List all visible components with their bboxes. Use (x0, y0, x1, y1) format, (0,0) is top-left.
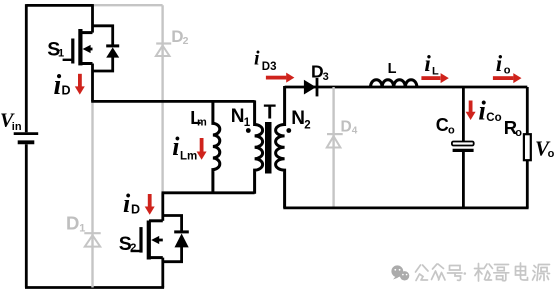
wire grey D4 branch vertical (332, 87, 334, 208)
wire left rail lower (Vin- vertical) (25, 144, 28, 287)
char 源 (533, 265, 550, 281)
diode D1 (grey, inactive) (84, 233, 100, 246)
char dot (464, 272, 467, 275)
watermark wechat icon (391, 265, 409, 280)
transformer T winding N1 (255, 100, 263, 193)
arrow iD (S1) red (75, 74, 85, 95)
arrow iCo red (466, 101, 476, 121)
svg-text:i: i (54, 70, 62, 101)
arrow io red (493, 73, 522, 83)
svg-text:4: 4 (352, 126, 358, 137)
wire S2 source lead down to rail (161, 258, 164, 288)
capacitor Co bottom plate (453, 149, 474, 152)
svg-text:i: i (478, 95, 486, 125)
svg-text:2: 2 (304, 119, 310, 131)
svg-text:in: in (12, 121, 22, 133)
svg-text:1: 1 (58, 48, 64, 60)
arrow iD (S2) red (145, 194, 155, 215)
wire top rail black Vin+ to S1 drain (26, 4, 92, 7)
capacitor Co lower stem (462, 152, 465, 208)
svg-text:o: o (515, 127, 522, 139)
wire output right vertical lower (526, 160, 529, 208)
transistor S1 gate bar (71, 39, 74, 64)
transistor Q S2: drain lead (161, 193, 164, 221)
watermark text 公众号·松哥电源 (simplified stroke art) (416, 263, 550, 281)
svg-text:Lm: Lm (180, 150, 197, 162)
transformer T polarity dot N2 (286, 128, 291, 133)
diode S2 body cathode bar (174, 230, 189, 233)
svg-text:D: D (341, 119, 352, 136)
arrow iLm red (197, 138, 207, 160)
svg-text:1: 1 (244, 117, 251, 129)
wire output right vertical upper (526, 87, 529, 135)
wire grey D2 branch vertical (161, 5, 163, 193)
svg-text:C: C (436, 115, 449, 135)
inductor Lm winding (213, 100, 220, 193)
transformer T winding N2 (276, 86, 285, 208)
char 公 (416, 265, 429, 281)
wire left rail upper (Vin+ vertical) (25, 4, 28, 132)
svg-text:i: i (424, 51, 431, 76)
battery Vin short plate (18, 140, 35, 144)
transistor S2 source arrow (159, 239, 163, 242)
char 号 (448, 266, 463, 281)
resistor Ro body (524, 134, 531, 160)
diode D4 (grey, inactive) (327, 134, 343, 147)
char 哥 (494, 265, 509, 281)
svg-text:1: 1 (79, 223, 85, 235)
diode S2 body triangle (175, 234, 189, 248)
svg-text:L: L (388, 61, 397, 77)
char 松 (475, 264, 493, 282)
transistor S1 source horizontal (79, 62, 93, 65)
wire secondary top rail (N2 top through D3 and L to output) (285, 86, 528, 89)
svg-text:N: N (291, 108, 305, 129)
transistor Q S1: drain lead (91, 4, 94, 32)
svg-text:2: 2 (130, 242, 136, 254)
wire bottom rail primary (25, 286, 164, 289)
diode S2 body diode branch (163, 216, 182, 262)
char 电 (516, 263, 528, 280)
svg-text:D: D (62, 84, 71, 98)
transistor S2 gate bar (139, 227, 142, 253)
transistor S1 channel bar (78, 29, 82, 65)
svg-text:m: m (197, 116, 207, 128)
diode S1 body cathode bar (106, 44, 119, 47)
transistor S1 source arrow (89, 48, 93, 51)
svg-text:o: o (448, 125, 455, 137)
arrow iD3 red (266, 73, 295, 83)
capacitor Co branch upper stem (462, 87, 465, 141)
capacitor Co top plate (outline) (452, 142, 474, 146)
svg-text:L: L (432, 65, 439, 77)
svg-text:i: i (123, 189, 131, 218)
svg-text:2: 2 (183, 35, 189, 47)
diode S1 body diode branch (93, 26, 113, 71)
svg-text:Co: Co (486, 112, 501, 124)
svg-text:i: i (254, 47, 260, 69)
svg-text:D: D (66, 213, 79, 234)
svg-text:T: T (264, 101, 276, 123)
transistor S2 channel bar (147, 221, 151, 260)
svg-text:3: 3 (323, 71, 329, 83)
arrow iL red (421, 73, 448, 83)
transformer T core (265, 122, 272, 174)
svg-text:i: i (496, 51, 503, 76)
svg-text:o: o (504, 65, 511, 77)
wire S1 source lead down to node (91, 64, 94, 102)
diode S1 body triangle (106, 47, 119, 57)
svg-text:o: o (548, 148, 554, 160)
wire grey D1 branch vertical (91, 101, 93, 287)
transistor S2 source horizontal (149, 256, 163, 259)
transformer T polarity dot N1 (246, 128, 251, 133)
transistor S1 gate lead (63, 59, 73, 61)
transistor S1 drain horizontal (79, 31, 93, 34)
battery Vin long plate (14, 132, 39, 135)
diode D3 cathode bar (316, 78, 319, 96)
wire switch node horizontal (S1 source to N1 top) (91, 100, 254, 103)
svg-text:N: N (231, 106, 245, 127)
transistor S2 gate lead (131, 250, 142, 252)
transistor S2 drain horizontal (149, 219, 163, 222)
svg-text:D: D (131, 203, 140, 217)
diode D2 (grey, inactive) (156, 44, 171, 57)
diode D3 triangle (304, 80, 316, 95)
svg-text:D3: D3 (262, 61, 277, 73)
char 众 (432, 264, 446, 280)
wire grey top rail segment to D2 (93, 4, 163, 6)
inductor L winding (371, 80, 417, 87)
wire secondary bottom rail (283, 206, 528, 209)
wire S2 drain horizontal to transformer bottom (162, 191, 255, 194)
